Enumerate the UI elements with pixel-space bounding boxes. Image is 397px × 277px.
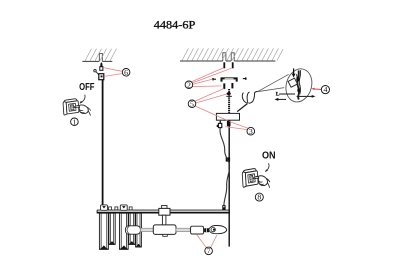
svg-text:ON: ON: [262, 151, 276, 162]
ON switch with hand: [242, 169, 270, 188]
cord connector at bar: [222, 205, 225, 210]
svg-text:8: 8: [257, 193, 261, 202]
callout 8: [255, 193, 263, 202]
threaded rod: [228, 89, 230, 113]
left ceiling line: [82, 53, 112, 61]
ceiling bolt a: [223, 62, 225, 68]
slot b: [231, 53, 234, 61]
small screw under bracket: [226, 92, 232, 96]
bracket screw right: [243, 77, 247, 79]
centre stem: [162, 215, 166, 225]
arm bottom tab: [163, 234, 168, 236]
centre hanger cap: [162, 206, 167, 209]
crystal prism 2: [109, 213, 116, 244]
slot a: [223, 53, 226, 61]
L terminal line: [276, 92, 295, 98]
N arrow line left: [275, 98, 287, 101]
callout 3: [225, 122, 254, 136]
svg-text:5: 5: [190, 99, 194, 108]
centre hanger block: [159, 208, 170, 215]
right arm tube: [176, 228, 190, 231]
svg-text:7: 7: [207, 246, 211, 255]
OFF arrow: [80, 95, 85, 104]
bulb base: [204, 228, 209, 232]
cord lock below canopy: [217, 121, 222, 128]
OFF switch with hand: [63, 99, 91, 115]
callout 7: [197, 235, 217, 256]
left cord nut: [99, 74, 104, 80]
callout 5: [188, 89, 227, 109]
crystal prism 3: [119, 213, 128, 249]
callout 1: [71, 117, 79, 126]
svg-text:4: 4: [323, 85, 327, 94]
straight suspension cable: [228, 120, 230, 246]
detail down arrow: [292, 68, 296, 77]
left ceiling hatching: [85, 49, 117, 61]
chandelier bar: [97, 210, 230, 213]
detail wire bundle: [296, 70, 300, 99]
center ceiling line: [180, 53, 275, 61]
callout 6: [103, 68, 130, 77]
ceiling slot: [99, 53, 102, 61]
ceiling bolt b: [232, 62, 234, 68]
left suspension cord: [102, 80, 104, 205]
svg-text:1: 1: [72, 117, 76, 126]
centre arm body: [153, 225, 176, 235]
bar clamp right: [120, 205, 127, 210]
center ceiling hatching: [182, 48, 283, 60]
magnifier cone lines: [258, 74, 289, 91]
cable clamp: [226, 157, 230, 161]
crystal prism 5: [135, 213, 141, 247]
small hanger hooks on bar: [109, 207, 132, 210]
crystal prism 4: [129, 213, 136, 244]
crystal prism 1: [99, 213, 108, 249]
detail terminal block: [288, 78, 297, 87]
left bulb behind crystals: [125, 226, 140, 234]
canopy bolt below: [227, 121, 231, 126]
mains wires curly: [237, 91, 257, 111]
bar clamp left: [101, 205, 108, 210]
N arrow line right: [297, 95, 316, 98]
canopy plate: [216, 113, 239, 120]
wavy power cord: [220, 128, 230, 205]
svg-text:2: 2: [187, 80, 191, 89]
svg-text:6: 6: [124, 68, 128, 77]
lamp socket: [191, 226, 204, 234]
bulb glass: [209, 225, 227, 233]
svg-text:4484-6P: 4484-6P: [154, 17, 196, 31]
callout 2: [185, 68, 231, 89]
bracket screw left: [212, 78, 216, 80]
left arm tube: [140, 228, 153, 231]
ON arrow: [265, 163, 269, 172]
left cotter pin: [94, 70, 100, 76]
callout 5 line to canopy bolt: [196, 106, 229, 121]
magnifier ellipse: [282, 66, 315, 105]
left hanging screw: [100, 62, 103, 70]
svg-text:L: L: [276, 92, 280, 98]
svg-text:OFF: OFF: [79, 82, 94, 93]
callout 4: [311, 85, 329, 94]
svg-text:3: 3: [249, 127, 253, 136]
mounting bracket: [222, 78, 237, 89]
